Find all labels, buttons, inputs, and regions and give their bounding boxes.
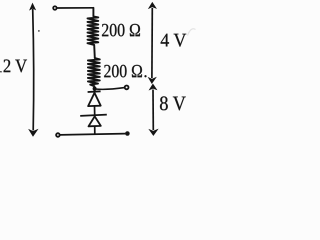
wire <box>60 134 126 135</box>
dimension arrow 4 V <box>148 2 156 83</box>
terminal T3 (bottom-left, open circle) <box>56 133 60 137</box>
value label 200 Ω (R1) <box>102 24 140 37</box>
label 12 V <box>0 59 27 72</box>
terminal T2 (middle output, open circle) <box>125 86 129 90</box>
terminal T1 (top input, open circle) <box>53 6 57 10</box>
node B (bottom-right dot) <box>125 131 130 136</box>
label 4 V <box>161 34 187 47</box>
dimension arrow 8 V <box>149 84 158 135</box>
label 8 V <box>160 96 186 110</box>
wire <box>95 88 125 90</box>
resistor R2 <box>88 58 100 92</box>
diode D1 <box>88 89 101 115</box>
dimension arrow 12 V <box>29 3 40 136</box>
node A (junction dot) <box>93 87 97 91</box>
value label 200 Ω (R2) <box>104 65 142 78</box>
diode D2 <box>80 115 107 134</box>
wire <box>57 7 93 9</box>
resistor R1 <box>88 8 99 58</box>
